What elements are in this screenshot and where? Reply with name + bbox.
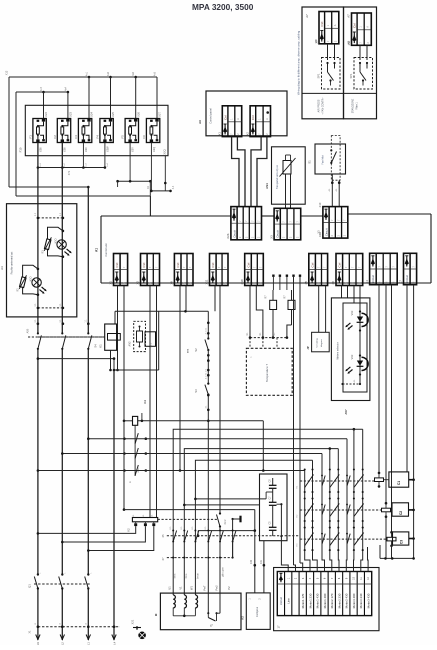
svg-text:4.1 4.1 4.1: 4.1 4.1 4.1 xyxy=(205,368,207,379)
svg-text:X17: X17 xyxy=(347,40,351,45)
svg-text:ana: ana xyxy=(187,348,190,353)
thermal switch t xyxy=(207,612,209,614)
svg-text:F10: F10 xyxy=(19,147,23,152)
svg-text:X36: X36 xyxy=(38,147,42,152)
svg-text:H2O: H2O xyxy=(30,276,33,281)
svg-text:A7: A7 xyxy=(305,14,309,18)
switch S1 xyxy=(330,149,332,151)
svg-text:X2: X2 xyxy=(245,132,249,136)
svg-text:Ctrl: Ctrl xyxy=(115,262,119,267)
svg-text:X71: X71 xyxy=(68,170,71,175)
svg-text:C3: C3 xyxy=(400,540,404,544)
svg-text:Ctrl: Ctrl xyxy=(223,115,227,120)
wire K2 to bus2 xyxy=(62,526,145,542)
svg-text:Q1: Q1 xyxy=(28,584,32,588)
connector X7 bottom xyxy=(399,253,417,284)
breaker F4 xyxy=(96,112,116,152)
wire X1 down xyxy=(117,286,119,371)
wire rail y92 xyxy=(16,91,68,93)
dashed K1 link xyxy=(38,336,105,338)
wire H3 y448.6 xyxy=(184,449,338,595)
svg-text:X25: X25 xyxy=(111,112,115,117)
wire F6 to jumper xyxy=(150,143,152,191)
svg-text:X18: X18 xyxy=(240,279,244,285)
svg-text:Pw2: Pw2 xyxy=(214,585,218,591)
dashed row y557.6 xyxy=(167,557,233,559)
wire X5 down to JP xyxy=(318,286,320,333)
svg-text:Circuit: Circuit xyxy=(276,230,280,238)
connector X4 bottom xyxy=(365,253,397,284)
svg-text:Ctrl: Ctrl xyxy=(320,21,324,26)
strip header arrow xyxy=(280,573,282,582)
svg-text:Motor2 430: Motor2 430 xyxy=(345,593,349,608)
wire A5 chain bottom dashed xyxy=(343,383,360,385)
led VD1 xyxy=(357,361,363,366)
wire bracket right xyxy=(254,510,256,593)
breaker F2 xyxy=(53,112,73,152)
node dots below A3 xyxy=(37,322,40,325)
svg-text:VD2: VD2 xyxy=(351,354,354,359)
dashed disconnect row S4 xyxy=(28,336,105,338)
svg-text:ANK: ANK xyxy=(137,467,140,472)
contact chain below C4 xyxy=(134,425,136,476)
svg-text:A6: A6 xyxy=(198,120,202,124)
svg-text:17: 17 xyxy=(276,625,280,628)
svg-text:X4: X4 xyxy=(365,280,369,284)
svg-text:X9: X9 xyxy=(315,40,319,44)
svg-text:AN1: AN1 xyxy=(265,183,269,189)
svg-text:SP1: SP1 xyxy=(349,73,353,78)
wire box rail down to strip col1 xyxy=(281,536,288,571)
box temperature dashed xyxy=(246,348,292,395)
svg-text:Ctrl: Ctrl xyxy=(353,23,357,28)
svg-text:Motor2 230: Motor2 230 xyxy=(337,593,341,608)
wire motor feeds xyxy=(232,542,234,558)
resistor R7b xyxy=(291,290,293,300)
svg-text:X2: X2 xyxy=(136,281,140,285)
svg-text:Circuit: Circuit xyxy=(371,275,375,283)
capacitor C4 in series xyxy=(133,416,138,425)
relay C3 xyxy=(393,532,409,545)
svg-text:X3: X3 xyxy=(317,230,321,234)
wire S1 leads down xyxy=(331,174,333,207)
connector X3 xyxy=(269,208,300,240)
resistor RC3 xyxy=(387,537,396,541)
wire snubber links xyxy=(195,498,266,500)
svg-text:Fan-Mot: Fan-Mot xyxy=(322,155,325,165)
svg-text:Circuit: Circuit xyxy=(405,275,409,283)
wire H1 y429 xyxy=(173,429,363,595)
contactor K2 bar xyxy=(132,518,157,522)
svg-text:P2: P2 xyxy=(227,586,231,590)
connector X11 bottom xyxy=(205,254,228,286)
svg-text:K2: K2 xyxy=(127,528,131,532)
svg-text:Ctrl: Ctrl xyxy=(246,262,250,267)
box A6 control panel xyxy=(206,91,287,136)
wire rail y77 xyxy=(9,76,157,78)
contact bus1 xyxy=(37,332,39,334)
svg-text:PwT: PwT xyxy=(203,585,207,591)
svg-text:Temperature 7: Temperature 7 xyxy=(265,364,269,382)
wire fuse bottom bus y167.5 xyxy=(38,167,105,169)
terminal strip outer xyxy=(274,568,379,631)
svg-text:Ctrl: Ctrl xyxy=(310,262,314,267)
wire K2 to bus1 xyxy=(38,526,136,533)
connector X2 bottom xyxy=(136,254,160,286)
matrix single verticals xyxy=(345,439,348,572)
svg-text:X2b: X2b xyxy=(226,233,230,239)
connector X8 left xyxy=(314,12,339,44)
svg-text:Wiring diag to fit different a: Wiring diag to fit different amp. divers… xyxy=(296,30,300,95)
box AN1 xyxy=(272,147,306,204)
svg-text:Motor1 430: Motor1 430 xyxy=(316,593,320,608)
dashed linkage rect S1 xyxy=(331,136,340,181)
wire chain top xyxy=(207,311,209,338)
matrix pair verticals down xyxy=(305,471,310,572)
svg-text:S1: S1 xyxy=(308,160,312,164)
svg-text:S2: S2 xyxy=(194,348,198,352)
relay K1.1 xyxy=(145,332,156,347)
svg-text:X10: X10 xyxy=(318,202,322,207)
svg-text:X11: X11 xyxy=(205,279,209,284)
wire subloop right xyxy=(158,311,160,370)
wire feeder y187 xyxy=(9,186,88,188)
svg-text:W1: W1 xyxy=(190,585,194,589)
svg-text:X2Q: X2Q xyxy=(152,147,156,152)
indicator lamp H2 with resistor R3 xyxy=(48,227,63,256)
wire H6 y470.5 xyxy=(38,470,305,472)
svg-text:Ctrl: Ctrl xyxy=(142,262,146,267)
svg-text:MPA 3200, 3500: MPA 3200, 3500 xyxy=(192,2,254,12)
svg-text:Motor1 230: Motor1 230 xyxy=(308,593,312,608)
svg-text:SP1: SP1 xyxy=(317,73,321,78)
wire fuse bottom bus y181.2 xyxy=(118,180,151,182)
svg-text:X30: X30 xyxy=(84,147,88,152)
svg-text:X13: X13 xyxy=(6,70,9,75)
svg-text:Motor3 230: Motor3 230 xyxy=(359,593,363,608)
svg-text:Circuit: Circuit xyxy=(232,230,236,238)
dashed contact row y535.8 xyxy=(167,535,300,537)
svg-text:A57: A57 xyxy=(344,409,348,415)
svg-text:X9: X9 xyxy=(170,281,174,285)
wire H4 y453.5 xyxy=(62,453,322,455)
relay K1 xyxy=(105,324,117,350)
svg-text:gibw gnm: gibw gnm xyxy=(223,567,225,577)
svg-text:AIR PRESS: AIR PRESS xyxy=(318,99,321,112)
svg-text:X36: X36 xyxy=(63,147,67,152)
resistor RC2 xyxy=(382,508,391,512)
wire chain bottom xyxy=(207,395,209,614)
svg-text:K1: K1 xyxy=(98,344,102,348)
wire y358 from bus1 xyxy=(38,358,114,360)
svg-text:4x7: 4x7 xyxy=(40,86,43,91)
wire thermistor leads xyxy=(285,174,287,208)
svg-text:+L4: +L4 xyxy=(112,641,116,645)
svg-text:V1: V1 xyxy=(179,586,183,590)
svg-text:X7: X7 xyxy=(399,280,403,284)
svg-text:Motor3 400: Motor3 400 xyxy=(352,593,356,608)
dashed bottom row xyxy=(38,626,120,628)
contacts on single verticals xyxy=(346,475,348,477)
svg-text:S3: S3 xyxy=(194,389,198,393)
svg-text:Compres: Compres xyxy=(256,606,259,617)
connector X1 bottom xyxy=(109,254,128,286)
wire pins down to strip xyxy=(293,277,295,565)
svg-text:U1: U1 xyxy=(168,586,172,590)
indicator box A3 xyxy=(7,204,77,317)
svg-text:F6: F6 xyxy=(142,135,146,139)
svg-text:X2Q: X2Q xyxy=(163,149,167,154)
connector X5 bottom xyxy=(304,254,328,286)
svg-text:X2.2: X2.2 xyxy=(224,519,227,525)
dashed temp link xyxy=(250,337,287,339)
svg-text:F3: F3 xyxy=(74,135,78,139)
svg-text:A7: A7 xyxy=(347,14,351,18)
svg-text:X26: X26 xyxy=(136,112,140,117)
svg-text:bma: bma xyxy=(175,573,177,578)
svg-text:Filter 1: Filter 1 xyxy=(356,102,359,110)
wire K1 bottom xyxy=(110,350,112,370)
svg-text:Motor3 430: Motor3 430 xyxy=(366,593,370,608)
svg-text:S4: S4 xyxy=(94,344,98,348)
svg-text:4x5: 4x5 xyxy=(154,71,157,76)
svg-text:Circuit: Circuit xyxy=(324,228,328,236)
connector X10 xyxy=(318,207,348,239)
wire X9 down xyxy=(179,286,181,471)
box A5 outer xyxy=(331,298,370,401)
svg-text:X27: X27 xyxy=(158,112,162,117)
led VD2 xyxy=(357,317,363,322)
relay C1 xyxy=(389,472,409,487)
wire H5 y460.3 xyxy=(195,460,312,595)
wire X11 down xyxy=(214,286,216,312)
svg-text:4x4: 4x4 xyxy=(64,86,67,91)
wires A6 to X2b xyxy=(232,137,239,207)
dashed link bottom A3 xyxy=(38,307,63,309)
dashed K2 to X2.2 xyxy=(158,518,217,520)
capacitor C8 xyxy=(272,478,274,485)
box motor M1 xyxy=(160,593,241,630)
svg-text:bman: bman xyxy=(198,572,200,578)
resistor R7a xyxy=(272,290,274,300)
svg-text:C2: C2 xyxy=(399,511,403,515)
dashed link top A3 xyxy=(38,217,63,219)
box C7 C8 C5 xyxy=(260,474,288,541)
svg-text:Two panel sens dry co: Two panel sens dry co xyxy=(276,164,279,188)
svg-text:C4: C4 xyxy=(143,400,147,404)
wire coil star join xyxy=(172,608,174,616)
wire X6 down xyxy=(341,286,343,298)
wire bus x62.3 xyxy=(61,143,63,334)
breaker F5 xyxy=(121,112,141,152)
svg-text:K1.1: K1.1 xyxy=(151,342,153,347)
K2 terminal pads xyxy=(134,523,137,526)
box A7 left section xyxy=(302,7,344,119)
svg-text:X24: X24 xyxy=(90,112,94,117)
svg-text:F5: F5 xyxy=(121,135,125,139)
svg-text:VD2: VD2 xyxy=(351,310,354,315)
svg-text:X1: X1 xyxy=(109,281,113,285)
svg-text:Motor2 170: Motor2 170 xyxy=(330,593,334,608)
svg-text:4x1: 4x1 xyxy=(86,71,89,76)
box JP xyxy=(312,332,330,352)
svg-text:Ctrl: Ctrl xyxy=(338,262,342,267)
bus terminals xyxy=(36,635,40,640)
svg-text:A5B: A5B xyxy=(27,328,30,333)
svg-text:-U1: -U1 xyxy=(36,641,40,645)
fuse box outline xyxy=(25,105,168,155)
wire grid2 to SP2 xyxy=(359,45,361,60)
connector X8 right xyxy=(347,13,372,45)
svg-text:4x8: 4x8 xyxy=(132,71,135,76)
thermistor RT1 xyxy=(283,161,291,175)
svg-text:Ctrl: Ctrl xyxy=(211,262,215,267)
pins on A1 bottom edge xyxy=(272,275,274,277)
capacitor C5 xyxy=(269,526,277,528)
svg-text:JP: JP xyxy=(306,346,310,349)
svg-text:F1: F1 xyxy=(29,135,33,139)
ground X21 xyxy=(133,627,141,629)
svg-text:F2: F2 xyxy=(53,135,57,139)
svg-text:X23: X23 xyxy=(69,112,73,117)
connector X18 bottom xyxy=(240,254,263,286)
wire grid1 to SP1 xyxy=(327,44,329,60)
wire bus x37.9 xyxy=(37,143,39,334)
svg-text:diagram: diagram xyxy=(320,339,323,347)
svg-text:F4: F4 xyxy=(96,135,100,139)
wire bus x114 xyxy=(113,370,115,640)
relay C2 xyxy=(392,503,409,516)
resistor RC1 xyxy=(375,478,384,482)
wire H2 y438.7 xyxy=(88,438,347,440)
box S1 xyxy=(315,144,346,174)
svg-text:X3Y: X3Y xyxy=(131,147,135,152)
pressure switch SP1 left dashed box xyxy=(322,58,341,90)
switch S3 xyxy=(207,382,209,384)
svg-text:M: M xyxy=(154,613,158,616)
svg-text:Control panel: Control panel xyxy=(209,108,213,124)
svg-text:for tuning: for tuning xyxy=(316,338,319,348)
svg-text:4x8: 4x8 xyxy=(107,71,110,76)
contact bus3 xyxy=(87,332,89,334)
wire y558.4 bus xyxy=(380,557,414,559)
svg-text:Ctrl: Ctrl xyxy=(251,115,255,120)
svg-text:Line: Line xyxy=(286,598,290,604)
capacitor C7 xyxy=(269,501,277,503)
svg-text:Wrtime selector: Wrtime selector xyxy=(337,342,340,359)
connector X9 bottom xyxy=(170,254,193,286)
breaker F3 xyxy=(74,112,94,152)
svg-text:H2O: H2O xyxy=(55,238,58,243)
svg-text:Circuit: Circuit xyxy=(279,597,283,605)
switch S2 xyxy=(207,337,209,339)
dashed matrix rows xyxy=(300,480,375,482)
svg-text:A1: A1 xyxy=(95,248,99,252)
svg-text:A3: A3 xyxy=(0,266,4,270)
svg-text:STANDZONE: STANDZONE xyxy=(352,98,355,113)
breaker F6 xyxy=(142,112,162,152)
matrix contacts xyxy=(304,468,306,470)
motor coils xyxy=(173,595,175,608)
svg-text:X22: X22 xyxy=(44,112,48,117)
terminator stub xyxy=(231,518,233,520)
connector X6 bottom xyxy=(331,254,363,286)
terminal strip grid xyxy=(277,572,371,616)
contact bus2 xyxy=(61,332,63,334)
svg-text:X5: X5 xyxy=(304,281,308,285)
indicator lamp H1 with resistor R2 xyxy=(23,265,38,294)
svg-text:bma: bma xyxy=(186,573,188,578)
svg-text:C1: C1 xyxy=(397,481,401,485)
connector X2 in A6 xyxy=(245,106,270,137)
wire y420.8 left xyxy=(124,420,133,422)
svg-text:4.1 4.1: 4.1 4.1 xyxy=(205,327,207,334)
svg-text:X3: X3 xyxy=(269,235,273,239)
wire cap inner rails xyxy=(265,492,267,499)
svg-text:Ctrl: Ctrl xyxy=(176,262,180,267)
wire y509.6 long xyxy=(124,509,255,511)
pressure switch SP2 right dashed box xyxy=(354,58,373,90)
svg-text:Motor1 400: Motor1 400 xyxy=(323,593,327,608)
box A7 right section xyxy=(344,7,377,119)
box A5 inner xyxy=(343,303,367,392)
svg-text:Control unit: Control unit xyxy=(104,243,108,257)
svg-text:Motor1 170: Motor1 170 xyxy=(301,593,305,608)
breaker F1 xyxy=(29,112,49,152)
svg-text:A2: A2 xyxy=(240,616,244,620)
wire C box bottom to A2 xyxy=(263,541,265,593)
svg-text:X1: X1 xyxy=(218,132,222,136)
box A1 control unit xyxy=(101,215,231,217)
box A2 compressor xyxy=(246,593,270,630)
wire lamp chain A5 xyxy=(359,316,361,384)
wire K2 to bus3 xyxy=(88,526,154,550)
svg-text:X21: X21 xyxy=(131,619,135,624)
svg-text:X30: X30 xyxy=(250,559,253,564)
wire y311 link xyxy=(115,310,208,312)
switch X2.2 xyxy=(219,512,221,514)
wire left feeders xyxy=(8,77,10,187)
svg-text:X31: X31 xyxy=(260,559,263,564)
wire chain mid xyxy=(207,350,209,384)
wire X7 down xyxy=(406,285,408,472)
wire X2 down xyxy=(149,286,151,518)
svg-text:X3W: X3W xyxy=(105,146,109,152)
wire fuse top drops xyxy=(43,92,45,119)
svg-text:+ FAN CONTR+: + FAN CONTR+ xyxy=(322,97,325,115)
breaker Q1 contacts xyxy=(37,573,39,575)
wire bus x88.3 xyxy=(87,187,89,333)
svg-text:AN3: AN3 xyxy=(129,341,132,346)
box AN3 dashed xyxy=(134,321,146,351)
wire X4 down xyxy=(378,285,380,473)
connector X2b xyxy=(226,207,261,240)
connector X1 in A6 xyxy=(218,106,242,137)
wire X18 down xyxy=(249,286,251,338)
svg-text:X6: X6 xyxy=(331,281,335,285)
wire feeder y196 xyxy=(16,195,151,197)
svg-text:Rychlo-umiestnd act: Rychlo-umiestnd act xyxy=(11,251,14,274)
